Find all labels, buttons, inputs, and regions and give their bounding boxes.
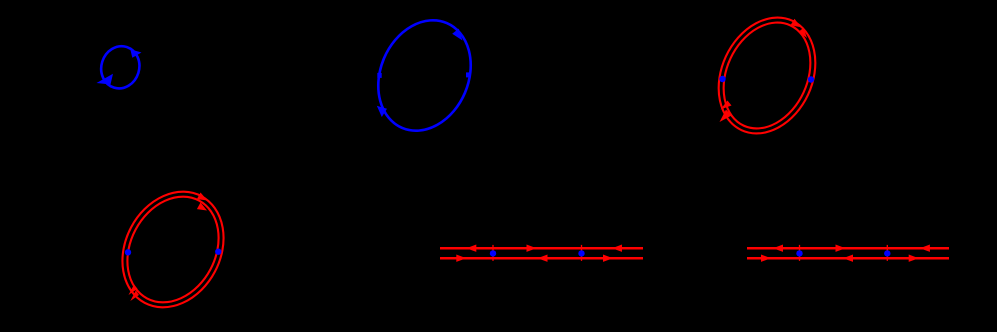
diagram f: vertical tick at second vertex: [886, 245, 888, 261]
large blue loop (one-loop diagram b): [362, 6, 488, 145]
arrowhead d inner, top-right: [197, 203, 207, 211]
arrowhead on large blue loop, top-right: [452, 29, 462, 41]
diagram f: arrowhead top line right-pointing (segment 2): [836, 245, 846, 252]
diagram f (bottom right): top fermion line: [747, 247, 949, 250]
diagram e: second vertex dot: [578, 250, 584, 256]
red double loop (diagram d) inner line: [110, 181, 237, 319]
diagram e: bottom fermion line: [440, 257, 643, 260]
diagram f: second vertex dot: [884, 250, 890, 256]
arrowhead c outer, top-right: [791, 19, 802, 27]
arrowhead d inner, bottom-left: [129, 285, 138, 296]
diagram f: vertical tick at first vertex: [799, 245, 801, 261]
red double loop (diagram d, bottom left) outer line: [103, 174, 243, 325]
red double loop (diagram c) inner line: [707, 8, 827, 142]
right vertex dot on d: [215, 249, 221, 255]
small blue loop (one-loop diagram a): [96, 41, 145, 93]
right vertex dot on c: [808, 76, 814, 82]
diagram f: first vertex dot: [796, 250, 802, 256]
diagram e: arrowhead top line right-pointing (segment 2): [527, 245, 537, 252]
arrowhead c inner, top-right: [799, 28, 808, 38]
red double loop (diagram c, top right) outer line: [700, 2, 833, 150]
arrowhead on small blue loop, bottom-left: [97, 74, 114, 85]
right tick on large blue loop: [466, 72, 470, 77]
arrowhead on small blue loop, top-right: [130, 49, 141, 58]
diagram f: arrowhead top line left-pointing (segment 1): [773, 245, 783, 252]
diagram e: arrowhead top line left-pointing (segment 3): [612, 245, 622, 252]
arrowhead d outer, top-right: [197, 193, 208, 201]
diagram f: arrowhead top line left-pointing (segment 3): [920, 245, 930, 252]
arrowhead c inner, bottom-left: [721, 101, 732, 110]
diagram f: arrowhead bottom line left-pointing (segment 2): [843, 255, 853, 262]
diagram e: vertical tick at first vertex: [492, 245, 494, 261]
arrowhead c outer, bottom-left: [720, 110, 732, 123]
left vertex dot on d: [125, 249, 131, 255]
diagram e: arrowhead bottom line right-pointing (segment 1): [456, 255, 466, 262]
arrowhead on large blue loop, bottom-left: [377, 106, 387, 117]
diagram e: vertical tick at second vertex: [581, 245, 583, 261]
left vertex dot on c: [719, 76, 725, 82]
diagram e: arrowhead bottom line right-pointing (segment 3): [603, 255, 613, 262]
diagram f: arrowhead bottom line right-pointing (segment 3): [909, 255, 919, 262]
diagram e (bottom middle): top fermion line: [440, 247, 643, 250]
left tick on large blue loop: [377, 73, 381, 78]
diagram e: arrowhead top line left-pointing (segment 1): [466, 245, 476, 252]
diagram f: bottom fermion line: [747, 257, 949, 260]
diagram f: arrowhead bottom line right-pointing (segment 1): [761, 255, 771, 262]
arrowhead d outer, bottom-left: [130, 291, 139, 302]
diagram e: arrowhead bottom line left-pointing (segment 2): [538, 255, 548, 262]
diagram e: first vertex dot: [490, 250, 496, 256]
